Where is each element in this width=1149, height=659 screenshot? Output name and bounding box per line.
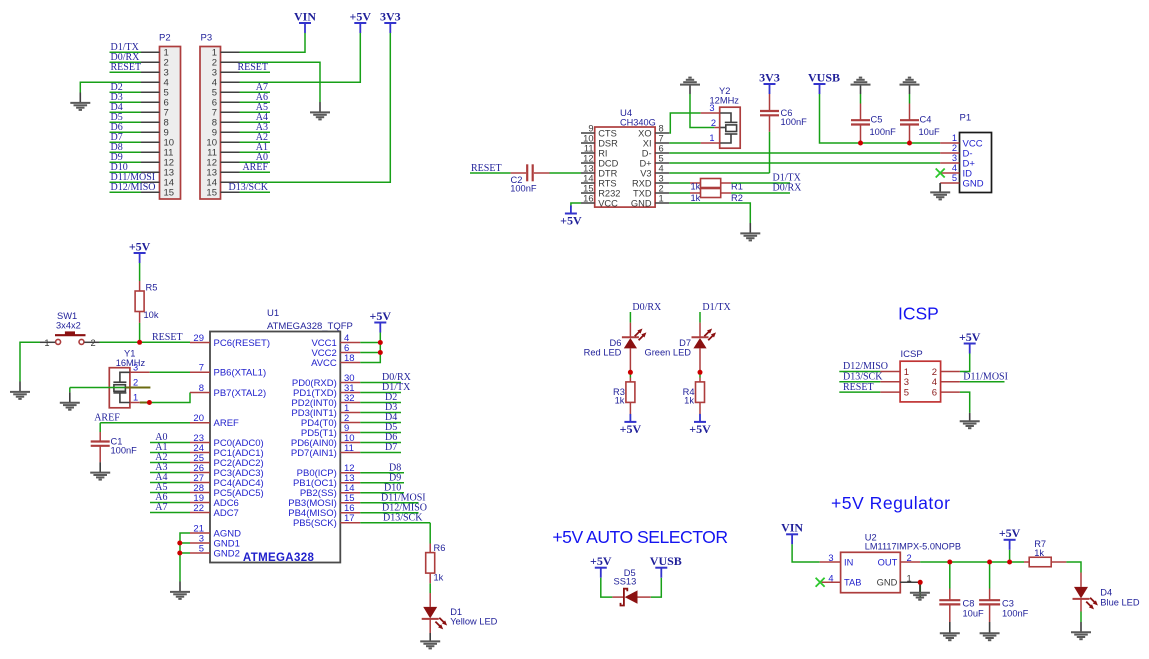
connector P2 body: [160, 47, 181, 200]
svg-text:PC6(RESET): PC6(RESET): [214, 338, 270, 349]
svg-text:12: 12: [583, 153, 593, 163]
wire R5 to RESET node: [139, 323, 141, 342]
wire OUT rail down to C3: [989, 562, 991, 589]
svg-text:CH340G: CH340G: [620, 118, 656, 128]
P3 pin 15: [206, 182, 270, 199]
svg-text:2: 2: [133, 377, 138, 387]
P3 pin 11: [207, 142, 270, 159]
P3 pin 4: [212, 78, 240, 89]
LED D4: [1074, 587, 1088, 599]
svg-text:D1/TX: D1/TX: [702, 302, 731, 313]
P2 pin 12 net D9: [110, 152, 175, 169]
wire P3 pin1 to VIN: [240, 33, 306, 52]
U1 pin 16 PB4(MISO): [288, 503, 360, 519]
wire D0/RX to D6: [629, 312, 631, 323]
junction RESET / R5: [137, 340, 142, 345]
svg-text:3: 3: [133, 362, 138, 372]
svg-text:10uF: 10uF: [919, 127, 941, 137]
wire to resistor R3: [629, 375, 631, 378]
svg-text:5: 5: [952, 173, 957, 183]
svg-text:RESET: RESET: [111, 62, 142, 73]
svg-text:2: 2: [907, 553, 912, 563]
svg-text:6: 6: [659, 143, 664, 153]
wire ICSP pin2 to +5V: [960, 354, 970, 372]
ground at SW1: [19, 382, 21, 392]
svg-text:XI: XI: [643, 138, 652, 148]
P1 pin 1 VCC: [940, 133, 982, 149]
P2 pin 15 net D12/MISO: [110, 182, 175, 199]
svg-text:100nF: 100nF: [870, 127, 897, 137]
ICSP header body: [900, 361, 941, 402]
svg-text:2: 2: [91, 338, 96, 348]
Y2 pin 1: [701, 142, 721, 144]
wire +5V to OUT rail: [1009, 550, 1011, 562]
svg-text:15: 15: [583, 183, 593, 193]
U1 pin 2 PD4(T0): [301, 413, 360, 429]
svg-text:ADC7: ADC7: [214, 508, 239, 519]
U1 pin 19 ADC6: [190, 493, 239, 509]
U4 pin 1 GND: [631, 193, 669, 208]
junction +5V on OUT rail: [1007, 560, 1012, 565]
svg-text:10k: 10k: [144, 310, 159, 320]
svg-text:2: 2: [952, 143, 957, 153]
junction VCC1: [378, 340, 383, 345]
wire C2 to U4 DTR: [550, 172, 582, 174]
LED D1: [423, 607, 437, 619]
U2 pin 2 OUT: [878, 553, 921, 567]
svg-text:VIN: VIN: [781, 521, 803, 535]
ground at D4: [1080, 622, 1082, 632]
U4 pin 7 XI: [643, 133, 669, 148]
svg-text:2: 2: [659, 183, 664, 193]
P1 pin 4 ID: [940, 163, 972, 179]
wire OUT rail down to C8: [949, 562, 951, 589]
svg-text:29: 29: [193, 333, 204, 344]
wire net D9 from U1: [360, 473, 404, 484]
crystal Y1 body: [109, 368, 130, 408]
IC U1 ATMEGA328 body: [210, 332, 340, 563]
wire P2 pin4 to ground: [80, 82, 141, 92]
wire ICSP pin6 to ground: [960, 392, 970, 413]
wire net A4 to U1: [150, 472, 190, 483]
capacitor C5: [851, 104, 870, 144]
P3 pin 6: [212, 92, 270, 109]
wire D5 anode to VUSB: [651, 578, 662, 597]
supply VIN: [299, 22, 311, 24]
svg-text:4: 4: [952, 163, 957, 173]
U1 pin 12 PB0(ICP): [297, 463, 361, 479]
ground at Y1: [69, 392, 71, 402]
P3 pin 10: [206, 132, 270, 149]
wire SW1 pin2 to RESET node: [100, 341, 140, 343]
LED D7 bottom lead: [699, 348, 701, 370]
svg-text:10: 10: [583, 133, 593, 143]
svg-text:+5V: +5V: [370, 309, 392, 323]
wire net A0 to U1: [150, 432, 190, 443]
svg-text:P1: P1: [960, 112, 972, 123]
svg-text:AVCC: AVCC: [311, 358, 337, 369]
Y1 pin 2 and case wire: [70, 387, 126, 389]
wire +5V to D5 cathode: [601, 578, 613, 597]
svg-text:1: 1: [709, 133, 714, 143]
supply +5V above U1: [374, 322, 386, 324]
U1 pin 14 PB2(SS): [300, 483, 360, 499]
Y1 pin 1: [130, 402, 140, 404]
wire net D7 from U1: [360, 442, 401, 453]
P3 pin 3: [212, 62, 270, 79]
svg-text:7: 7: [659, 133, 664, 143]
U1 pin 22 ADC7: [190, 503, 239, 519]
U2 pin 1 GND: [877, 573, 921, 587]
svg-text:3: 3: [952, 153, 957, 163]
wire D4 to ground: [1080, 612, 1082, 623]
P2 pin 11 net D8: [110, 142, 174, 159]
svg-text:D13/SCK: D13/SCK: [229, 182, 269, 193]
svg-text:100nF: 100nF: [111, 446, 138, 456]
wire VCC2 stub: [360, 352, 380, 354]
U4 pin 11 RI: [581, 143, 608, 158]
capacitor C8: [939, 589, 960, 623]
P2 pin 2 net D0/RX: [110, 52, 169, 69]
U4 pin 12 DCD: [581, 153, 619, 168]
svg-text:RI: RI: [598, 148, 607, 158]
P3 pin 9: [212, 122, 270, 139]
svg-text:8: 8: [659, 123, 664, 133]
U1 pin 3 GND1: [190, 533, 240, 549]
LED D4 bottom lead: [1080, 599, 1082, 612]
svg-text:1: 1: [952, 133, 957, 143]
switch SW1 symbol: [40, 331, 100, 347]
supply VUSB at selector: [655, 567, 667, 569]
wire R2 to D0/RX: [731, 192, 790, 194]
svg-text:1: 1: [133, 393, 138, 403]
junction C4 / VCC rail: [907, 141, 912, 146]
supply VUSB top: [814, 83, 826, 85]
wire Y1 case to ground: [69, 388, 71, 393]
capacitor C3: [979, 589, 1000, 623]
svg-text:VCC: VCC: [598, 198, 618, 208]
LED D1 bottom lead: [429, 619, 431, 633]
wire RESET node to U1 PC6: [140, 341, 190, 343]
ground at U2 GND: [919, 582, 921, 592]
wire net A6 to U1: [150, 492, 190, 503]
wire U4 D- to P1: [669, 152, 940, 154]
wire net RESET to ICSP: [839, 382, 880, 393]
wire net D13/SCK from U1 to R6: [360, 513, 430, 524]
svg-text:C4: C4: [920, 114, 932, 124]
wire U4 D+ to P1: [669, 162, 940, 164]
svg-text:+5V: +5V: [350, 9, 372, 23]
wire net D12/MISO from U1: [360, 503, 427, 514]
svg-text:R2: R2: [731, 193, 743, 203]
svg-text:1k: 1k: [434, 572, 444, 582]
svg-text:5: 5: [904, 388, 909, 399]
svg-text:17: 17: [344, 513, 355, 524]
U2 pin 4 TAB: [822, 573, 862, 587]
P2 pin 4 (GND): [141, 78, 169, 89]
wire net D6 from U1: [360, 432, 401, 443]
wire U4 XO to Y2 pin3: [669, 113, 700, 133]
svg-text:+5V Regulator: +5V Regulator: [831, 493, 950, 513]
wire D1/TX to D7: [699, 312, 701, 323]
svg-text:R6: R6: [434, 543, 446, 553]
svg-text:GND: GND: [631, 198, 652, 208]
U1 pin 28 PC5(ADC5): [190, 483, 264, 499]
svg-text:9: 9: [588, 123, 593, 133]
P3 pin 12: [206, 152, 270, 169]
svg-text:2: 2: [711, 118, 716, 128]
P3 pin 13: [206, 162, 270, 179]
supply +5V at ICSP: [964, 343, 976, 345]
resistor R6: [426, 544, 435, 584]
U4 pin 9 CTS: [581, 123, 617, 138]
svg-text:+5V: +5V: [590, 554, 612, 568]
Y1 pin 3: [130, 371, 150, 373]
supply 3V3 above C6: [764, 83, 776, 85]
U2 pin 3 IN: [820, 553, 854, 567]
U1 pin 27 PC4(ADC4): [190, 473, 264, 489]
svg-text:VUSB: VUSB: [808, 70, 840, 84]
svg-text:D13/SCK: D13/SCK: [383, 513, 423, 524]
svg-text:VIN: VIN: [294, 9, 316, 23]
svg-text:ICSP: ICSP: [901, 349, 923, 360]
svg-text:CTS: CTS: [598, 128, 617, 138]
wire net D5 from U1: [360, 422, 401, 433]
svg-text:XO: XO: [638, 128, 651, 138]
svg-text:16MHz: 16MHz: [116, 358, 146, 368]
wire ground to C5: [860, 94, 862, 104]
ground above Y2: [689, 85, 691, 94]
svg-text:4: 4: [828, 573, 833, 583]
svg-text:RESET: RESET: [152, 332, 183, 343]
U1 pin 1 PD3(INT1): [291, 403, 360, 419]
svg-text:GND: GND: [877, 578, 898, 588]
supply 3V3 top: [384, 22, 396, 24]
LED D6 top lead: [629, 323, 631, 337]
wire Y1 pin3 to U1 XTAL1: [150, 371, 190, 373]
capacitor C4: [900, 104, 919, 144]
supply +5V under R4: [694, 421, 706, 423]
ground at P3 pin2: [319, 102, 321, 112]
wire net D11/MOSI from U1: [360, 493, 425, 504]
wire P3 pin4 to +5V: [240, 33, 361, 82]
svg-text:Red LED: Red LED: [584, 348, 622, 358]
svg-text:1: 1: [907, 573, 912, 583]
wire net D8 from U1: [360, 463, 404, 474]
svg-text:+5V: +5V: [689, 422, 711, 436]
wire U4 V3 to C6: [669, 172, 769, 174]
wire net A3 to U1: [150, 462, 190, 473]
svg-text:Green LED: Green LED: [644, 348, 691, 358]
svg-text:11: 11: [344, 443, 354, 454]
svg-text:RXD: RXD: [632, 178, 652, 188]
IC U2 body: [841, 552, 901, 592]
svg-text:PD7(AIN1): PD7(AIN1): [291, 448, 337, 459]
svg-text:AREF: AREF: [242, 162, 268, 173]
junction GND1: [177, 541, 182, 546]
junction D6 / resistor: [628, 370, 633, 375]
wire U1 ground bus: [180, 533, 190, 582]
svg-text:ATMEGA328: ATMEGA328: [243, 552, 315, 564]
svg-text:+5V AUTO SELECTOR: +5V AUTO SELECTOR: [552, 527, 727, 547]
P3 pin 2: [212, 58, 240, 69]
P3 pin 1: [212, 48, 240, 59]
svg-text:15: 15: [164, 188, 175, 199]
capacitor C6: [760, 94, 779, 132]
P2 pin 1 net D1/TX: [110, 42, 169, 59]
wire Y2 pin2 to ground: [690, 94, 714, 128]
ground at P2 pin4: [79, 93, 81, 103]
svg-text:DTR: DTR: [598, 168, 617, 178]
svg-text:GND2: GND2: [214, 548, 240, 559]
junction C5 / VCC rail: [858, 141, 863, 146]
U1 pin 20 AREF: [190, 413, 239, 429]
IC U4 CH340G body: [595, 127, 655, 207]
ground at D1: [429, 633, 431, 641]
U4 pin 5 D+: [639, 153, 669, 168]
P2 pin 10 net D7: [110, 132, 175, 149]
U1 pin 30 PD0(RXD): [292, 373, 360, 389]
svg-text:D+: D+: [639, 158, 651, 168]
svg-text:ICSP: ICSP: [898, 303, 939, 323]
wire U4 RXD to R1: [669, 182, 690, 184]
svg-text:D7: D7: [385, 442, 397, 453]
svg-text:D1: D1: [450, 607, 462, 617]
P2 pin 14 net D11/MOSI: [110, 172, 175, 189]
svg-text:C3: C3: [1002, 598, 1014, 608]
svg-text:+5V: +5V: [999, 526, 1021, 540]
svg-text:11: 11: [584, 143, 594, 153]
svg-text:1k: 1k: [691, 181, 701, 191]
svg-text:1k: 1k: [615, 396, 625, 406]
wire net A7 to U1: [150, 502, 190, 513]
wire U4 XI to Y2 pin1: [669, 142, 700, 144]
ICSP pins 5/6: [880, 388, 960, 399]
U1 pin 15 PB3(MOSI): [288, 493, 360, 509]
U1 pin 31 PD1(TXD): [293, 383, 360, 399]
svg-text:VUSB: VUSB: [650, 554, 682, 568]
U4 pin 15 R232: [581, 183, 620, 198]
svg-text:PB6(XTAL1): PB6(XTAL1): [214, 368, 267, 379]
P2 pin 3 net RESET: [110, 62, 169, 79]
U4 pin 6 D-: [642, 143, 670, 158]
U1 pin 18 AVCC: [311, 353, 360, 369]
wire P3 pin2 to ground: [240, 62, 321, 102]
wire P3 pin14 to 3V3: [240, 33, 391, 182]
svg-text:IN: IN: [844, 557, 853, 567]
ground at P1 GND: [939, 183, 941, 192]
svg-text:RESET: RESET: [471, 163, 502, 174]
svg-text:100nF: 100nF: [781, 117, 808, 127]
svg-text:D11/MOSI: D11/MOSI: [963, 372, 1008, 383]
junction at Y1 pin1: [147, 400, 152, 405]
wire net D2 from U1: [360, 392, 401, 403]
ground at C3: [989, 622, 991, 633]
svg-text:13: 13: [583, 163, 593, 173]
svg-text:+5V: +5V: [129, 239, 151, 253]
diode D5 SS13: [612, 589, 650, 606]
Y2 pin 3: [701, 112, 721, 114]
junction C3 on OUT rail: [987, 560, 992, 565]
svg-text:7: 7: [199, 363, 204, 374]
svg-text:C5: C5: [871, 114, 883, 124]
U1 pin 4 VCC1: [311, 333, 360, 349]
U1 pin 17 PB5(SCK): [293, 513, 360, 529]
svg-text:1k: 1k: [684, 396, 694, 406]
svg-text:5: 5: [199, 543, 204, 554]
svg-text:100nF: 100nF: [1002, 608, 1029, 618]
svg-text:OUT: OUT: [878, 557, 898, 567]
svg-text:D4: D4: [1100, 588, 1112, 598]
svg-text:U1: U1: [267, 308, 279, 319]
connector P1 body: [960, 133, 992, 193]
ground at C8: [949, 622, 951, 633]
wire SW1 pin1 to ground: [20, 342, 40, 381]
svg-text:20: 20: [193, 413, 204, 424]
svg-text:+5V: +5V: [560, 214, 582, 228]
svg-text:D12/MISO: D12/MISO: [111, 182, 156, 193]
svg-text:3: 3: [709, 103, 714, 113]
resistor R5: [135, 281, 144, 323]
U1 pin 25 PC2(ADC2): [190, 453, 264, 469]
LED D6 bottom lead: [629, 348, 631, 370]
svg-text:6: 6: [932, 388, 937, 399]
resistor R7: [1024, 557, 1066, 567]
svg-text:D0/RX: D0/RX: [773, 183, 803, 194]
supply +5V above R5: [134, 252, 146, 254]
P2 pin 7 net D4: [110, 102, 169, 119]
ground above C5: [860, 85, 862, 94]
wire D13/SCK down to R6: [429, 523, 431, 544]
wire C6 to V3 net: [769, 132, 771, 173]
svg-text:P3: P3: [201, 33, 213, 44]
Y2 pin 2: [714, 127, 720, 129]
wire net A5 to U1: [150, 482, 190, 493]
svg-text:+5V: +5V: [620, 422, 642, 436]
P1 pin 2 D-: [940, 143, 972, 159]
wire AREF to U1: [100, 422, 190, 424]
U4 pin 14 RTS: [581, 173, 617, 188]
wire U4 TXD to R2: [669, 192, 690, 194]
wire ICSP pin4 to D11/MOSI: [960, 381, 1005, 383]
supply +5V under U4: [565, 213, 577, 215]
supply VIN at regulator: [786, 533, 798, 535]
U4 pin 13 DTR: [581, 163, 618, 178]
P3 pin 7: [212, 102, 270, 119]
wire net D0/RX from U1: [360, 372, 411, 383]
svg-text:ATMEGA328_TQFP: ATMEGA328_TQFP: [267, 321, 353, 332]
svg-text:Blue LED: Blue LED: [1100, 598, 1140, 608]
ICSP pins 3/4: [880, 377, 960, 388]
wire U4 GND to ground: [669, 203, 750, 223]
capacitor C2: [511, 164, 550, 181]
svg-text:1: 1: [44, 338, 49, 348]
svg-text:8: 8: [199, 383, 204, 394]
svg-text:V3: V3: [640, 168, 651, 178]
ICSP pins 1/2: [880, 367, 960, 378]
svg-text:R5: R5: [146, 283, 158, 293]
supply +5V at selector: [595, 567, 607, 569]
svg-text:PB5(SCK): PB5(SCK): [293, 518, 337, 529]
U1 pin 6 VCC2: [311, 343, 360, 359]
U1 pin 8 PB7(XTAL2): [190, 383, 266, 399]
wire net D3 from U1: [360, 402, 401, 413]
wire VCC1 stub: [360, 342, 380, 344]
svg-text:AREF: AREF: [94, 412, 120, 423]
svg-text:22: 22: [193, 503, 204, 514]
svg-text:1k: 1k: [691, 193, 701, 203]
U1 pin 24 PC1(ADC1): [190, 443, 264, 459]
